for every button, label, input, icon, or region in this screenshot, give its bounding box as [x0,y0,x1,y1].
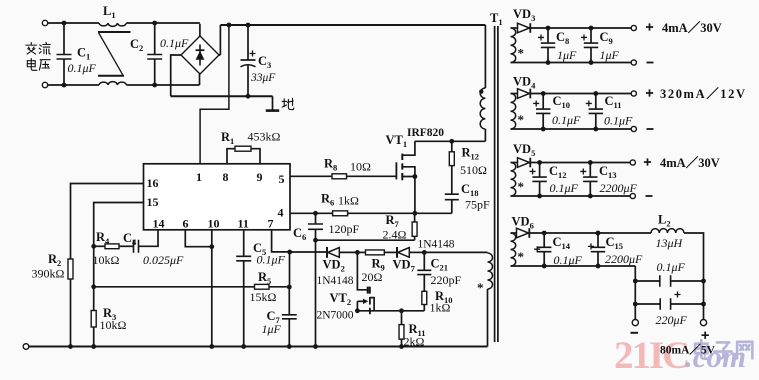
resistor R8 [332,174,347,179]
node R2 bottom rail [68,344,73,349]
svg-text:11: 11 [238,217,249,231]
node R5 branch [91,284,96,289]
node DC rail to IC supply [227,23,232,28]
wire feedback row to aux winding [424,251,487,253]
wire source row [357,310,424,312]
ground symbol [272,96,274,110]
transformer secondary winding 4 [511,233,516,266]
node C14 top [542,231,547,236]
svg-text:14: 14 [153,217,165,231]
node source junction [413,211,418,216]
transformer T1 core [495,26,498,342]
node pin6/pin10 [209,244,214,249]
capacitor C4 [134,240,139,253]
capacitor C11 [595,94,597,110]
output 3 plus terminal [630,160,635,165]
AC input terminal bottom [42,82,47,87]
svg-text:2.4Ω: 2.4Ω [383,228,407,242]
diode VD5 [511,162,518,164]
node C14 bottom [542,264,547,269]
node VD7 C21 [422,250,427,255]
wire DC top rail [220,24,485,26]
node C10 bottom [541,127,546,132]
svg-text:4: 4 [278,206,284,220]
wire bottom common rail [29,346,488,348]
svg-text:0.1μF: 0.1μF [552,113,581,127]
node pin10 rail [209,344,214,349]
svg-text:IRF820: IRF820 [407,127,444,139]
transistor VT2 MOSFET [357,252,367,289]
resistor R9 [357,251,365,253]
svg-text:5: 5 [279,172,285,186]
svg-text:13μH: 13μH [656,236,684,250]
node R3 bottom rail [91,344,96,349]
svg-text:0.1μF: 0.1μF [68,61,97,75]
svg-text:6: 6 [183,217,189,231]
svg-text:16: 16 [147,176,159,190]
svg-text:20Ω: 20Ω [362,270,383,284]
node C3 bottom [246,94,251,99]
wire pin 7 down [272,230,290,252]
svg-text:10kΩ: 10kΩ [100,318,127,332]
node C2 top [152,21,157,26]
diode VD6 [511,232,517,234]
capacitor C16 filter 0.1uF [635,280,660,282]
resistor R1 [227,149,235,164]
label AC voltage (Chinese) [26,43,37,55]
node C11 top [593,91,598,96]
node C2 bottom [152,83,157,88]
svg-text:*: * [518,249,525,264]
output 1 plus terminal [631,25,636,30]
svg-text:1N4148: 1N4148 [418,239,455,251]
node C5 rail [241,344,246,349]
wire DC rail to IC pin 1 [200,25,229,164]
transformer secondary winding 1 [511,28,516,63]
capacitor C8 [547,28,549,43]
svg-text:220μF: 220μF [656,313,688,327]
svg-text:4mA／30V: 4mA／30V [660,155,720,170]
node C12 top [537,160,542,165]
svg-text:33μF: 33μF [250,72,276,84]
wire drain line [415,140,486,142]
capacitor C15 [597,233,599,247]
capacitor C6 [315,213,317,224]
node drain snubber [449,139,454,144]
node C10 top [541,91,546,96]
node VT2 source [355,308,360,313]
node R11 top [399,308,404,313]
capacitor C13 [589,163,591,178]
capacitor C3 electrolytic [247,25,249,60]
svg-text:9: 9 [257,170,263,184]
wire pin 10 down [211,230,213,347]
svg-text:120pF: 120pF [329,222,360,236]
wire pin 4 line [290,212,452,214]
node C7 rail [287,344,292,349]
output 4 minus terminal [632,320,638,326]
node R5 right [287,285,292,290]
resistor R2 [68,259,73,279]
resistor R11 [401,311,403,325]
diode VD2 [290,251,327,253]
IC controller U1 [144,164,291,230]
capacitor C5 [243,230,245,256]
wire pin 16 to R2 [71,184,144,260]
wire AC line top [48,22,99,24]
node C6 bottom [313,238,318,243]
node pin 7 feedback [287,250,292,255]
transformer T1 primary winding [484,25,486,88]
output 3 minus terminal [630,193,635,198]
wire output 4 top row [530,232,651,234]
svg-text:75pF: 75pF [465,198,490,212]
wire output 2 bottom row [511,128,632,130]
wire output 1 bottom row [511,62,632,64]
node VT1 source [413,174,418,179]
svg-text:0.1μF: 0.1μF [550,181,579,195]
svg-text:7: 7 [268,217,274,231]
svg-text:10: 10 [208,217,220,231]
svg-text:8: 8 [223,170,229,184]
svg-text:*: * [518,46,525,61]
svg-text:15kΩ: 15kΩ [250,290,277,304]
capacitor C14 [543,233,545,247]
resistor R10 [422,291,427,304]
svg-text:1kΩ: 1kΩ [430,301,451,315]
svg-text:4mA／30V: 4mA／30V [662,20,722,35]
capacitor C12 [539,163,541,178]
wire pin 6 jog [185,230,212,247]
node C11 bottom [593,127,598,132]
wire AC line bottom [48,84,99,86]
capacitor C10 [542,94,544,110]
wire bottom to minus terminal [634,266,636,319]
node C1 bottom [62,83,67,88]
svg-text:220pF: 220pF [431,273,462,287]
transformer secondary winding 3 [511,163,516,197]
wire pin 15 left branch [94,203,144,247]
node C6 top [313,211,318,216]
node C9 bottom [589,60,594,65]
phase dot primary [479,89,483,93]
svg-text:10kΩ: 10kΩ [93,253,120,267]
svg-text:0.1μF: 0.1μF [657,260,686,274]
node C13 top [588,160,593,165]
common terminal [23,344,29,350]
node R4 branch [91,244,96,249]
label ground (Chinese) [282,98,294,109]
node VD2 R9 gate [355,250,360,255]
resistor R3 [91,311,96,328]
node C12 bottom [537,194,542,199]
svg-text:2N7000: 2N7000 [317,310,354,322]
capacitor C21 [423,252,425,270]
svg-text:0.1μF: 0.1μF [604,114,633,128]
node C15 bottom [596,264,601,269]
transformer secondary winding 2 [511,94,516,130]
svg-text:320mA／12V: 320mA／12V [660,86,747,101]
node C8 top [546,26,551,31]
node C8 bottom [546,60,551,65]
svg-text:80mA／5V: 80mA／5V [660,343,716,357]
transformer aux winding [488,253,493,289]
output 2 minus terminal [631,126,636,131]
wire output 2 top row [531,93,632,95]
svg-text:1N4148: 1N4148 [317,275,354,287]
diode VD4 [511,93,518,95]
svg-text:10Ω: 10Ω [350,160,371,174]
node R11 rail [399,344,404,349]
svg-text:390kΩ: 390kΩ [32,267,65,281]
svg-text:1μF: 1μF [262,322,282,336]
wire bridge minus to ground rail [171,55,181,96]
inductor L2 [651,229,684,233]
svg-text:*: * [518,179,525,194]
resistor R4 [94,245,105,247]
resistor R12 [451,141,453,152]
svg-text:15: 15 [147,195,159,209]
wire output 1 top row [531,27,632,29]
node C13 bottom [588,194,593,199]
wire R7 bottom row [316,239,415,241]
bridge rectifier [199,24,201,36]
svg-text:0.1μF: 0.1μF [554,253,583,267]
svg-text:1μF: 1μF [557,48,577,62]
wire C6 to rail [315,240,317,346]
resistor R7 [414,213,416,222]
svg-text:1: 1 [196,170,202,184]
diode VD7 [398,248,410,258]
svg-text:1kΩ: 1kΩ [338,194,359,208]
wire ground rail [171,95,273,97]
output 1 minus terminal [631,60,636,65]
svg-text:2200μF: 2200μF [605,252,643,266]
resistor R6 [333,211,348,216]
wire output 4 bottom row [511,265,636,267]
capacitor C17 filter 220uF [635,303,660,305]
node C9 top [589,26,594,31]
capacitor C2 [154,23,156,55]
transistor VT1 MOSFET [395,162,397,179]
svg-text:0.1μF: 0.1μF [257,253,286,267]
node C1 top [62,21,67,26]
output 2 plus terminal [631,91,636,96]
wire pin 5 to R8 [290,175,332,177]
svg-text:*: * [477,280,484,295]
wire L2 to plus terminal [684,233,704,319]
capacitor C18 [445,194,459,200]
node C6 line rail [313,344,318,349]
diode VD3 [511,27,518,29]
svg-text:0.025μF: 0.025μF [143,253,184,267]
svg-text:510Ω: 510Ω [460,163,487,177]
capacitor C1 [63,23,65,55]
capacitor C7 [288,287,290,315]
resistor R5 [94,286,255,288]
AC input terminal top [42,20,47,25]
svg-text:453kΩ: 453kΩ [248,130,281,144]
node C3 top [246,23,251,28]
output 4 plus terminal [700,320,706,326]
node C15 top [596,231,601,236]
wire output 3 bottom row [511,195,631,197]
capacitor C9 [590,28,592,43]
wire bridge plus riser [219,25,220,55]
svg-text:0.1μF: 0.1μF [160,36,189,50]
svg-text:*: * [518,112,525,127]
svg-text:1μF: 1μF [600,48,620,62]
wire output 3 top row [531,162,631,164]
